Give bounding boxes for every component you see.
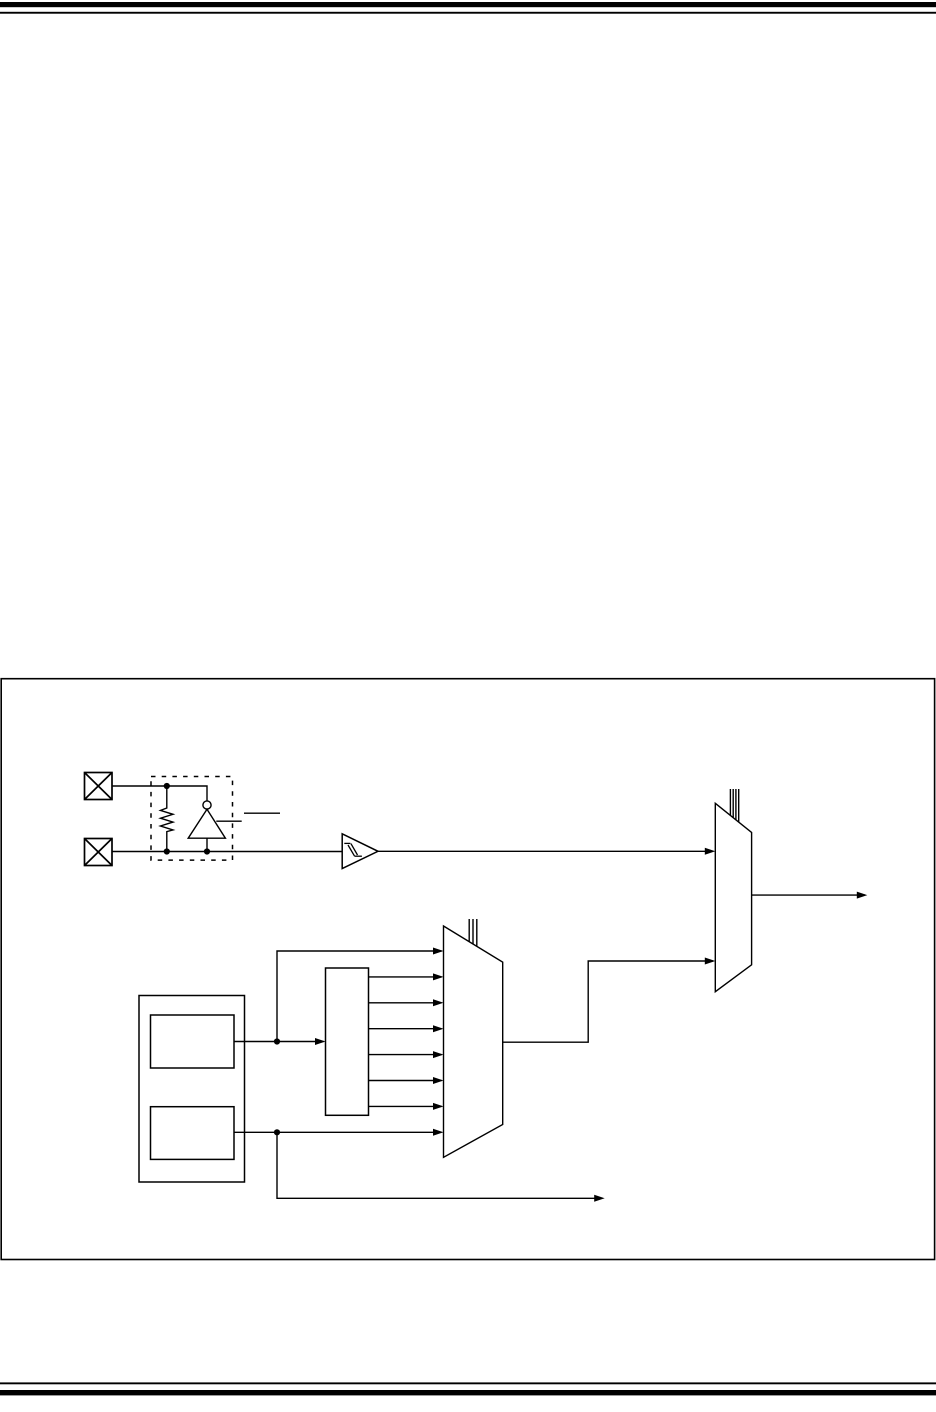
dashed enclosure (feedback network) bbox=[151, 777, 233, 861]
resistor R1 (feedback resistor) bbox=[161, 786, 174, 852]
figure frame bbox=[1, 679, 934, 1260]
MUX2 select lines (4) bbox=[730, 789, 738, 822]
prescaler block bbox=[326, 968, 369, 1115]
wire prescaler tap 4 to MUX1 bbox=[369, 1054, 442, 1056]
label leader line from inverter bbox=[216, 820, 241, 822]
arrowhead MUX1 input 4 bbox=[433, 1025, 444, 1032]
wire prescaler tap 1 to MUX1 bbox=[369, 976, 442, 978]
register 1 box bbox=[151, 1015, 235, 1068]
overline bar (signal name overline) bbox=[244, 812, 280, 814]
node junction J5 bbox=[274, 1129, 280, 1135]
arrowhead MUX1 input 7 bbox=[433, 1103, 444, 1110]
wire MUX1 output to MUX2 lower input bbox=[503, 961, 713, 1042]
wire MUX2 output bbox=[752, 894, 865, 896]
wire prescaler tap 5 to MUX1 bbox=[369, 1080, 442, 1082]
register 2 box bbox=[151, 1107, 235, 1160]
inverter U1 triangle bbox=[188, 809, 225, 838]
node junction J4 bbox=[274, 1038, 280, 1044]
wire buffer U2 to selector MUX2 input bbox=[378, 850, 713, 852]
page header thick rule bbox=[0, 2, 936, 7]
schmitt buffer U2 bbox=[342, 834, 378, 869]
node junction J3 bbox=[204, 848, 210, 854]
wire register 1 to prescaler input bbox=[234, 1041, 324, 1043]
wire J5 to bottom output bbox=[277, 1132, 603, 1198]
node junction J2 bbox=[164, 848, 170, 854]
page footer thin rule bbox=[0, 1382, 936, 1384]
pad X1 (crystal input pad) bbox=[85, 773, 113, 800]
wire bypass from J4 to MUX1 input 1 bbox=[277, 951, 442, 1042]
arrowhead MUX1 input 5 bbox=[433, 1051, 444, 1058]
arrowhead into MUX2 top input bbox=[705, 848, 716, 855]
schmitt buffer U2 hysteresis mark bbox=[344, 843, 362, 856]
arrowhead MUX1 input 8 bbox=[433, 1129, 444, 1136]
page footer thick rule bbox=[0, 1390, 936, 1395]
arrowhead MUX1 input 6 bbox=[433, 1077, 444, 1084]
arrowhead into prescaler bbox=[315, 1038, 326, 1045]
wire prescaler tap 3 to MUX1 bbox=[369, 1028, 442, 1030]
node junction J1 bbox=[164, 783, 170, 789]
MUX1 select lines (3) bbox=[469, 919, 477, 946]
pad X2 (crystal input pad) bbox=[85, 839, 113, 866]
arrowhead bottom output bbox=[594, 1195, 605, 1202]
arrowhead MUX1 input 3 bbox=[433, 999, 444, 1006]
wire prescaler tap 2 to MUX1 bbox=[369, 1002, 442, 1004]
wire prescaler tap 6 to MUX1 bbox=[369, 1105, 442, 1107]
wire register 2 to MUX1 input 8 bbox=[234, 1131, 442, 1133]
register block enclosure bbox=[139, 996, 245, 1183]
arrowhead MUX1 input 1 bbox=[433, 948, 444, 955]
selector MUX1 (prescaler output selector trapezoid) bbox=[444, 926, 503, 1157]
wire pad X1 to inverter input bbox=[112, 786, 207, 801]
arrowhead MUX2 lower input bbox=[705, 958, 716, 965]
arrowhead MUX1 input 2 bbox=[433, 973, 444, 980]
selector MUX2 (output selector trapezoid) bbox=[715, 803, 751, 991]
page header thin rule bbox=[0, 12, 936, 14]
arrowhead MUX2 output bbox=[857, 892, 868, 899]
wire inverter output stub to node bbox=[206, 838, 208, 851]
wire pad X2 to buffer U2 bbox=[112, 851, 342, 853]
inverter U1 bubble bbox=[203, 801, 211, 809]
